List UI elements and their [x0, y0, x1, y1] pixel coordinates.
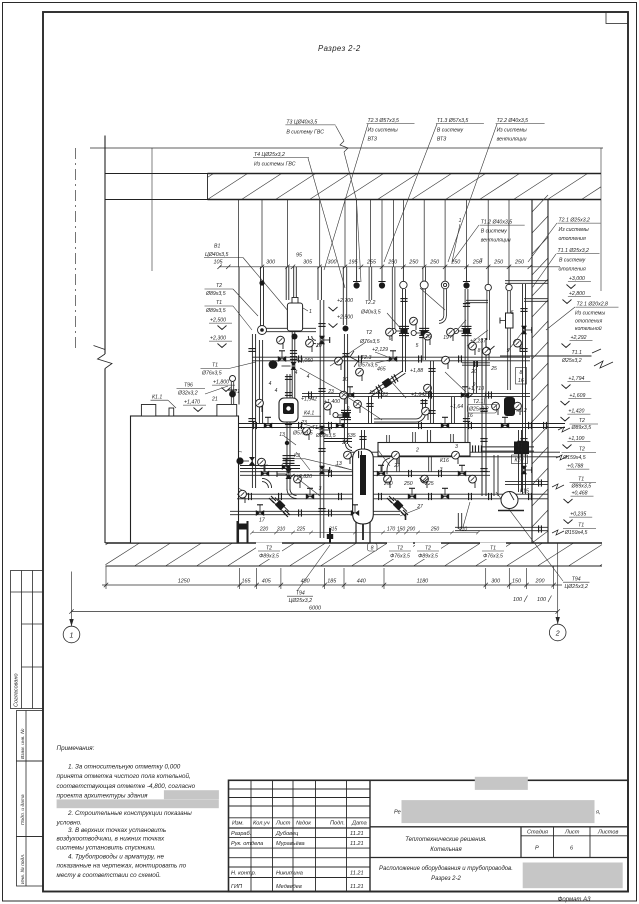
svg-text:11.21: 11.21	[350, 841, 364, 847]
svg-text:440: 440	[357, 579, 366, 585]
svg-text:Ф76х3,5: Ф76х3,5	[483, 554, 503, 560]
small dim row 220/310/225 bottom left	[259, 527, 468, 533]
svg-text:Медведев: Медведев	[276, 884, 302, 890]
tank nozzle 2	[169, 408, 174, 416]
valve2 on riser x524	[521, 466, 527, 474]
air separator vessel 1	[287, 303, 302, 331]
svg-text:Примечания:: Примечания:	[57, 745, 95, 752]
svg-text:вентиляции: вентиляции	[497, 136, 527, 142]
thin roof line above ceiling	[90, 147, 603, 149]
valve on H6 far left	[261, 470, 269, 476]
discharge bottom elbow to H7	[287, 489, 297, 499]
svg-text:Т2.1 Ø20х2,8: Т2.1 Ø20х2,8	[577, 302, 609, 308]
svg-text:310: 310	[277, 527, 286, 533]
riser x295 into air vessel	[294, 267, 297, 299]
svg-text:Ø25х3,2: Ø25х3,2	[468, 407, 489, 413]
left loop bottom arc elbow	[262, 478, 272, 488]
svg-text:Ø89х3,5: Ø89х3,5	[571, 484, 592, 490]
svg-text:6000: 6000	[309, 605, 321, 611]
svg-text:Т2: Т2	[216, 283, 222, 289]
svg-text:25: 25	[490, 366, 497, 372]
riser x466.5 long	[466, 267, 468, 282]
svg-text:405: 405	[262, 579, 272, 585]
K3 top pipe	[362, 430, 365, 449]
bottom dimension row 1	[102, 583, 562, 587]
svg-text:+1,542: +1,542	[301, 397, 317, 403]
svg-text:К1.1: К1.1	[152, 395, 162, 401]
svg-text:8: 8	[371, 546, 374, 552]
separator vessel K3	[353, 449, 374, 524]
svg-text:К16: К16	[440, 458, 449, 464]
svg-text:100: 100	[513, 597, 522, 603]
svg-text:Расположение оборудования и тр: Расположение оборудования и трубопроводо…	[379, 866, 513, 872]
svg-text:11.21: 11.21	[350, 884, 364, 890]
main horizontal pipe H5 y454.5 T2 F159	[350, 452, 560, 457]
svg-text:170: 170	[387, 527, 396, 533]
svg-text:+1,710: +1,710	[468, 386, 484, 392]
valve cluster on discharge	[286, 469, 292, 479]
header top nozzles	[387, 435, 390, 443]
wall stub pipe T1.1 y300	[524, 299, 548, 302]
valve2 on H2	[389, 356, 397, 362]
svg-text:Т1.2 Ø40х3,5: Т1.2 Ø40х3,5	[481, 220, 513, 226]
riser x445.1 with round fitting	[444, 267, 446, 281]
left vertical pipe x261	[259, 340, 262, 424]
svg-text:250: 250	[514, 259, 524, 265]
axis 1 circle	[63, 572, 80, 643]
svg-text:Котельная: Котельная	[430, 847, 462, 853]
svg-text:+1,64: +1,64	[450, 404, 463, 410]
svg-text:вентиляции: вентиляции	[481, 237, 511, 243]
valve on H7 left	[306, 493, 314, 499]
svg-text:16: 16	[467, 413, 473, 419]
svg-text:Из системы: Из системы	[368, 127, 398, 133]
riser x345	[343, 267, 346, 325]
svg-text:Кол.уч: Кол.уч	[253, 821, 270, 827]
svg-text:Т1.1: Т1.1	[572, 350, 582, 356]
main horizontal pipe H4 y425.5 T2 F89	[239, 424, 566, 428]
svg-text:2: 2	[415, 448, 419, 454]
svg-text:5: 5	[416, 343, 419, 349]
T96 pipe with valve on tank	[231, 382, 233, 404]
valve on H2 left	[278, 356, 286, 362]
svg-text:Стадия: Стадия	[527, 830, 548, 836]
header outlet valve cluster dark	[514, 442, 529, 455]
svg-text:Т2: Т2	[397, 545, 403, 551]
svg-text:Из системы: Из системы	[575, 311, 605, 317]
svg-text:Т1: Т1	[490, 545, 496, 551]
riser x424.2	[423, 267, 426, 281]
svg-text:Ф89х3,5: Ф89х3,5	[418, 554, 438, 560]
svg-text:воздухоотводчики, в нижних точ: воздухоотводчики, в нижних точках	[57, 834, 166, 842]
riser x370.4	[369, 267, 372, 300]
valve cluster on riser x346	[341, 410, 351, 419]
valve2 on H8	[351, 510, 359, 516]
svg-text:2. Строительные конструкции по: 2. Строительные конструкции показаны	[67, 810, 192, 817]
svg-text:+2,700: +2,700	[337, 298, 353, 304]
svg-text:250: 250	[408, 259, 418, 265]
main horizontal pipe H2 y359 T2.3	[252, 357, 530, 361]
thin vertical extension x152	[151, 148, 153, 271]
svg-text:Т2: Т2	[425, 545, 431, 551]
svg-text:13: 13	[279, 432, 285, 438]
svg-text:В1: В1	[214, 244, 220, 250]
svg-text:Дубовец: Дубовец	[275, 831, 298, 837]
valve2 on riser x322	[319, 426, 325, 434]
header right flanges	[473, 445, 476, 452]
riser x287.5	[286, 267, 289, 300]
top dimension line	[217, 265, 560, 269]
svg-text:11.21: 11.21	[350, 871, 364, 877]
svg-text:16: 16	[518, 378, 524, 384]
svg-text:3: 3	[319, 486, 322, 492]
svg-text:23: 23	[327, 389, 334, 395]
svg-text:Т2.2: Т2.2	[365, 300, 375, 306]
left margin stamp: Согласовано block	[11, 571, 44, 709]
svg-text:9: 9	[520, 344, 523, 350]
K5.2 inline pump on riser 509	[504, 397, 515, 416]
svg-text:23: 23	[381, 392, 388, 398]
left wall break mark	[98, 354, 113, 369]
horizontal header vessel 2	[378, 443, 470, 457]
svg-text:Т3 ЦØ40х3,5: Т3 ЦØ40х3,5	[286, 119, 317, 125]
T1.1 pipe single line through wall	[500, 355, 591, 357]
left margin stamp: Инв. № подл.	[17, 837, 44, 887]
right wall hatch	[532, 195, 548, 543]
drain stub mid	[329, 528, 331, 543]
svg-text:Т1.1 Ø25х3,2: Т1.1 Ø25х3,2	[558, 248, 590, 254]
svg-text:1: 1	[459, 218, 462, 224]
svg-text:+2,500: +2,500	[210, 318, 226, 324]
ceiling slab lines	[106, 173, 208, 175]
riser x262 down to ring elbow	[261, 267, 264, 326]
svg-text:ЦØ40х3,5: ЦØ40х3,5	[205, 252, 228, 258]
vertical pipe x429	[427, 430, 430, 443]
svg-text:300: 300	[266, 259, 275, 265]
valve cluster on x466	[462, 326, 472, 335]
svg-text:225: 225	[296, 527, 306, 533]
valve on H3	[346, 392, 354, 398]
mid riser x346 below loop top	[344, 334, 347, 444]
svg-text:9: 9	[347, 406, 350, 412]
svg-text:отопления: отопления	[559, 267, 586, 273]
K3 drain	[362, 524, 364, 540]
svg-text:Муравьёва: Муравьёва	[276, 841, 305, 847]
wall break mark on T1.1 pipe right	[594, 361, 613, 368]
valve2 on H4	[336, 422, 344, 428]
vertical drop from diagonal to H4	[369, 396, 372, 424]
Y-strainer on H7	[390, 498, 407, 515]
bottom extension lines	[106, 566, 554, 589]
svg-text:показанные на чертежах, монтир: показанные на чертежах, монтировать по	[57, 863, 187, 870]
svg-text:315: 315	[329, 527, 338, 533]
valve4 on H4	[501, 422, 509, 428]
svg-text:№док: №док	[296, 821, 311, 827]
svg-text:+0,788: +0,788	[567, 464, 583, 470]
svg-text:Т2: Т2	[366, 330, 372, 336]
svg-text:Т2.3 Ø57х3,5: Т2.3 Ø57х3,5	[368, 118, 400, 124]
svg-text:+1,100: +1,100	[568, 436, 584, 442]
svg-text:105: 105	[214, 259, 224, 265]
svg-text:6: 6	[511, 310, 514, 316]
svg-text:Р: Р	[535, 846, 539, 852]
svg-text:Ø89х3,5: Ø89х3,5	[205, 308, 226, 314]
svg-text:Т2.2 Ø40х3,5: Т2.2 Ø40х3,5	[497, 118, 529, 124]
svg-text:2: 2	[555, 631, 560, 638]
big flange cluster on discharge	[283, 456, 295, 459]
svg-text:21: 21	[233, 389, 240, 395]
thin vertical extension x601 right end of slab	[600, 148, 602, 291]
svg-text:Из системы: Из системы	[497, 127, 527, 133]
left table verticals	[250, 780, 252, 891]
svg-text:Из системы ГВС: Из системы ГВС	[254, 162, 296, 168]
svg-text:Подп.: Подп.	[330, 821, 345, 827]
svg-text:котельной: котельной	[575, 325, 602, 332]
riser x319.7 main left riser	[318, 267, 321, 300]
valve on H6 right	[458, 470, 466, 476]
riser x356.6 with cap fitting	[356, 267, 358, 282]
riser x488.2	[487, 267, 489, 284]
svg-text:Взам. инв. №: Взам. инв. №	[20, 729, 26, 759]
svg-text:18: 18	[369, 390, 375, 396]
svg-text:250: 250	[450, 259, 460, 265]
pump K4.1	[279, 398, 298, 422]
svg-text:250: 250	[430, 527, 440, 533]
svg-text:4: 4	[295, 370, 298, 376]
svg-text:200: 200	[535, 579, 545, 585]
svg-text:ЦØ25х3,2: ЦØ25х3,2	[565, 584, 588, 590]
svg-text:ГИП: ГИП	[231, 884, 243, 890]
diagonal valve body	[382, 378, 393, 388]
valve on H4 left	[264, 422, 272, 428]
svg-text:4: 4	[275, 388, 278, 394]
floor slab hatch	[106, 543, 603, 566]
header outlet pipe	[482, 447, 534, 451]
svg-text:Ø57х3,5: Ø57х3,5	[292, 431, 313, 437]
svg-text:Т2.3: Т2.3	[361, 355, 371, 361]
left margin stamp: Подп. и дата	[17, 761, 44, 837]
svg-text:Т2: Т2	[579, 418, 585, 424]
svg-text:Ø40х3,5: Ø40х3,5	[360, 310, 381, 316]
inline valve cartridge on riser 509	[506, 313, 514, 328]
break zigzag on H2	[350, 351, 358, 367]
main horizontal pipe H6 y473.5	[240, 472, 490, 476]
svg-text:Т2.1 Ø25х3,2: Т2.1 Ø25х3,2	[559, 218, 591, 224]
svg-text:535: 535	[347, 433, 356, 439]
riser x509	[508, 267, 510, 284]
svg-text:В систему: В систему	[559, 258, 586, 264]
svg-text:Т4 ЦØ25х3,2: Т4 ЦØ25х3,2	[254, 152, 285, 158]
riser B1 thin line from ceiling to tank nozzle	[238, 267, 240, 405]
svg-text:ЦØ25х3,2: ЦØ25х3,2	[289, 598, 312, 604]
svg-text:+2,800: +2,800	[569, 291, 585, 297]
leader thin lines texture	[300, 368, 352, 397]
valve on riser x322	[319, 336, 325, 344]
right wall faces	[531, 200, 533, 544]
small item number labels	[233, 218, 522, 510]
diagonal flanges	[376, 374, 398, 393]
valve cluster on x404	[399, 326, 409, 335]
diagonal pipe x404 to x370	[369, 371, 406, 396]
svg-text:+0,235: +0,235	[570, 512, 586, 518]
ring elbow at 262,330	[258, 326, 267, 335]
left vertical pipe x254	[252, 334, 255, 488]
svg-text:Рук. отдела: Рук. отдела	[231, 841, 263, 847]
svg-text:Дата: Дата	[351, 821, 367, 827]
27 elbow below header	[382, 458, 390, 472]
svg-text:Ø57х3,5: Ø57х3,5	[357, 363, 378, 369]
svg-text:В систему: В систему	[437, 127, 464, 133]
svg-text:Ø89х3,5: Ø89х3,5	[315, 433, 336, 439]
pipe jog y364	[462, 363, 490, 365]
svg-text:+1,470: +1,470	[184, 400, 200, 406]
svg-text:Разраб.: Разраб.	[231, 831, 251, 837]
svg-text:Ф76х3,5: Ф76х3,5	[390, 554, 410, 560]
flanges on mains	[299, 355, 302, 362]
svg-text:95: 95	[296, 253, 303, 259]
svg-text:250: 250	[387, 259, 397, 265]
svg-text:8: 8	[520, 370, 523, 376]
wall stub pipe T2.1 y282	[505, 281, 548, 284]
svg-text:255: 255	[366, 259, 377, 265]
svg-text:+0,468: +0,468	[572, 491, 588, 497]
svg-text:+3,000: +3,000	[569, 276, 585, 282]
svg-text:225: 225	[424, 481, 434, 487]
svg-text:250: 250	[403, 481, 413, 487]
slab cut edge	[207, 174, 209, 200]
valve3 on riser x322	[319, 466, 325, 474]
svg-text:Инв. № подл.: Инв. № подл.	[20, 854, 26, 884]
svg-text:Т2: Т2	[579, 447, 585, 453]
svg-text:1180: 1180	[417, 579, 429, 585]
left table horizontals	[229, 788, 371, 790]
valve on y467 pipe	[282, 464, 290, 470]
svg-text:месту в соответствии со схемой: месту в соответствии со схемой.	[57, 871, 162, 879]
svg-text:3: 3	[480, 258, 483, 264]
T94 labels bottom	[287, 492, 590, 604]
svg-text:Подп. и дата: Подп. и дата	[20, 794, 26, 825]
valve3 on H7	[441, 493, 449, 499]
svg-text:Листов: Листов	[597, 830, 618, 836]
svg-text:21: 21	[211, 397, 218, 403]
svg-text:Т94: Т94	[296, 591, 305, 597]
svg-text:условно.: условно.	[56, 819, 82, 826]
riser extension lines from ceiling	[239, 200, 510, 267]
svg-text:отопления: отопления	[575, 319, 602, 325]
pipe below air vessel	[292, 331, 295, 398]
svg-text:Т1: Т1	[578, 523, 584, 529]
valve on vessel riser with side wheel	[291, 362, 297, 370]
svg-text:Т2: Т2	[297, 423, 303, 429]
svg-text:К4.1: К4.1	[304, 411, 314, 417]
tank K1.1	[131, 416, 239, 543]
svg-text:проекта архитектуры здания: проекта архитектуры здания	[57, 792, 149, 800]
svg-text:Т96: Т96	[184, 383, 193, 389]
header bottom nozzles	[397, 456, 400, 472]
svg-text:Ре: Ре	[394, 810, 401, 816]
svg-text:1: 1	[70, 633, 74, 640]
svg-text:Т1.3 Ø57х3,5: Т1.3 Ø57х3,5	[437, 118, 469, 124]
tank nozzle 1	[141, 405, 155, 417]
svg-text:250: 250	[383, 481, 393, 487]
svg-text:Ø159х4,5: Ø159х4,5	[562, 455, 586, 461]
floor lines	[106, 542, 603, 544]
riser x382 with cap fitting	[381, 267, 383, 282]
wall crossing break marks	[558, 427, 570, 432]
svg-text:Формат А3: Формат А3	[558, 897, 591, 903]
svg-text:Ø89х3,5: Ø89х3,5	[205, 291, 226, 297]
axis 1 dash-dot line upper	[75, 148, 77, 352]
svg-text:3: 3	[455, 444, 458, 450]
svg-text:100: 100	[537, 597, 546, 603]
svg-text:Ø159х4,5: Ø159х4,5	[564, 530, 588, 536]
pressure gauges	[281, 342, 283, 349]
main horizontal pipe H7 y496.5 T1 F159	[237, 494, 548, 499]
valve on K15 riser	[517, 441, 523, 449]
left margin stamp: Взам. инв. №	[17, 711, 44, 762]
svg-text:4: 4	[307, 374, 310, 380]
svg-text:+2,129: +2,129	[372, 347, 388, 353]
right part	[370, 826, 628, 828]
pump suction/discharge pipes	[287, 374, 290, 398]
svg-text:165: 165	[242, 579, 252, 585]
svg-text:4. Трубопроводы и арматуру, не: 4. Трубопроводы и арматуру, не	[68, 853, 164, 861]
valve on left loop with side wheel	[249, 457, 255, 465]
svg-text:300: 300	[491, 579, 500, 585]
svg-text:26: 26	[341, 440, 348, 446]
svg-text:Ø76х3,5: Ø76х3,5	[201, 371, 222, 377]
svg-text:11.21: 11.21	[350, 831, 364, 837]
riser x393.6	[392, 267, 395, 330]
svg-text:Теплотехнические решения.: Теплотехнические решения.	[405, 837, 487, 843]
riser near wall x524	[523, 284, 526, 494]
svg-text:Т1: Т1	[578, 477, 584, 483]
svg-text:4: 4	[269, 381, 272, 387]
svg-text:системы установить спускники.: системы установить спускники.	[57, 844, 156, 851]
svg-text:Разрез 2-2: Разрез 2-2	[318, 44, 361, 53]
svg-text:+1,609: +1,609	[569, 393, 585, 399]
low pipe to wall y529	[455, 527, 548, 530]
svg-text:Ø76х3,5: Ø76х3,5	[359, 339, 380, 345]
notes	[164, 790, 219, 799]
svg-text:+1,88: +1,88	[410, 368, 423, 374]
valve cluster on x424	[419, 328, 429, 337]
svg-text:20: 20	[470, 369, 477, 375]
svg-text:+1,642: +1,642	[411, 392, 427, 398]
valve3 on H4	[441, 422, 449, 428]
svg-text:Ø89х3,5: Ø89х3,5	[571, 425, 592, 431]
main horizontal pipe H3 y395	[302, 393, 530, 396]
svg-text:150: 150	[397, 527, 406, 533]
svg-text:195: 195	[349, 259, 359, 265]
svg-text:Т94: Т94	[572, 577, 581, 583]
valve on H8	[256, 510, 264, 516]
svg-text:Н. контр.: Н. контр.	[231, 871, 256, 877]
svg-text:Ø32х3,2: Ø32х3,2	[177, 391, 198, 397]
svg-text:6: 6	[389, 336, 392, 342]
title block	[229, 780, 629, 891]
svg-text:465: 465	[377, 367, 386, 373]
drop to low pipe	[458, 513, 461, 529]
grey redaction boxes	[475, 777, 528, 790]
svg-text:Т2.1: Т2.1	[473, 399, 483, 405]
leader lines from top labels	[336, 126, 345, 142]
title block texts	[231, 810, 618, 891]
pipe jog y301	[466, 300, 488, 302]
floor band labels	[256, 543, 506, 560]
overall dimension 6000	[69, 609, 560, 613]
vertical pipe x404 below ring	[403, 289, 406, 372]
